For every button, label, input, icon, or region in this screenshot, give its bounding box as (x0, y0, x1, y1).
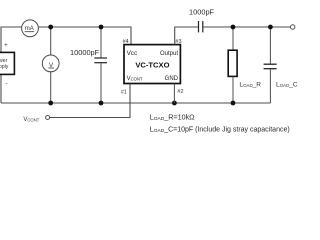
output terminal circle (291, 25, 295, 29)
svg-text:LOAD_R: LOAD_R (239, 82, 261, 89)
resistor LOAD_R (228, 27, 237, 103)
svg-text:10000pF: 10000pF (70, 48, 100, 57)
wire VCONT pin 1 to VCONT terminal (50, 84, 130, 118)
junction top at voltmeter (48, 25, 53, 30)
junction top at C1 (99, 25, 104, 30)
capacitor C2 1000pF (199, 21, 203, 32)
VCONT terminal circle (46, 116, 50, 120)
svg-text:supply: supply (0, 64, 9, 70)
power supply PS1 (0, 52, 14, 74)
capacitor LOAD_C (264, 27, 277, 103)
svg-text:Output: Output (160, 51, 178, 57)
capacitor C1 10000pF (94, 27, 107, 103)
wire capacitor to output terminal (203, 26, 290, 28)
svg-text:LOAD_C: LOAD_C (276, 82, 298, 89)
wire top rail from power supply to pin 4 (1, 27, 131, 53)
svg-text:#3: #3 (175, 39, 181, 45)
svg-text:1000pF: 1000pF (189, 7, 215, 16)
ammeter mA (22, 20, 39, 37)
oscillator U1 VC-TCXO (124, 45, 180, 84)
junction bus at C1 (99, 101, 104, 106)
svg-text:+: + (4, 43, 8, 49)
junction top at LOAD_C (268, 25, 273, 30)
svg-text:#1: #1 (121, 89, 127, 95)
wire output pin 3 to capacitor (175, 27, 198, 45)
svg-text:VCONT: VCONT (23, 117, 39, 123)
wire GND pin 2 to bus (173, 84, 175, 103)
svg-text:GND: GND (165, 76, 179, 82)
svg-text:LOAD_C=10pF (Include Jig stray: LOAD_C=10pF (Include Jig stray capacitan… (150, 124, 290, 134)
wire power supply minus to ground bus (0, 75, 2, 104)
junction bus at GND pin 2 (172, 101, 177, 106)
svg-text:Vcc: Vcc (127, 50, 138, 57)
wire voltmeter branch (50, 27, 52, 103)
svg-text:#4: #4 (123, 39, 129, 45)
junction top at LOAD_R (231, 25, 236, 30)
svg-text:VC-TCXO: VC-TCXO (135, 61, 169, 70)
junction bus at voltmeter (48, 101, 53, 106)
junction bus at LOAD_R (231, 101, 236, 106)
voltmeter V (42, 55, 59, 72)
svg-text:-: - (5, 80, 7, 87)
svg-text:#2: #2 (177, 89, 183, 95)
svg-text:VCONT: VCONT (127, 76, 143, 82)
ground bus wire (1, 102, 270, 104)
